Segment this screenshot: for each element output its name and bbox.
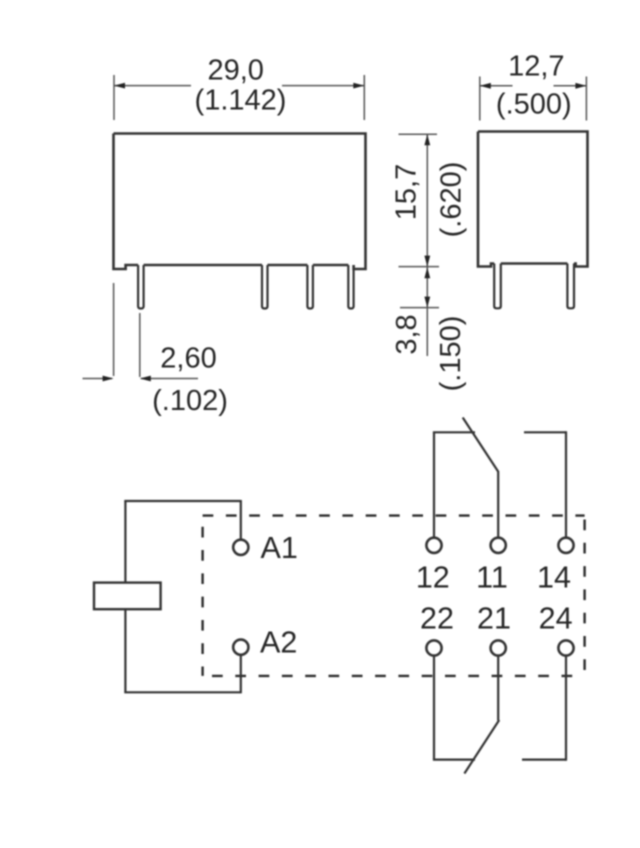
wire 14 horizontal bbox=[524, 431, 566, 433]
dimension 15,7 top tick bbox=[399, 133, 438, 135]
front view pin 3 bbox=[307, 265, 313, 309]
terminal 11 bbox=[491, 538, 506, 553]
dimension 2,60 left arrow line bbox=[83, 378, 113, 380]
svg-text:(.102): (.102) bbox=[152, 385, 228, 417]
dimension 15,7 arrow up bbox=[424, 134, 430, 145]
terminal 24 bbox=[558, 640, 573, 655]
terminal 22 bbox=[426, 640, 441, 655]
terminal 14 bbox=[558, 538, 573, 553]
svg-text:21: 21 bbox=[477, 601, 511, 635]
dimension 12,7 line left segment bbox=[480, 85, 513, 87]
svg-text:11: 11 bbox=[476, 561, 508, 595]
front view pin 1 bbox=[138, 265, 144, 309]
dimension 15,7 line bbox=[426, 134, 428, 266]
dimension 29,0 arrow right bbox=[353, 83, 364, 89]
dimension 12,7 arrow left bbox=[480, 83, 491, 89]
terminal A1 bbox=[233, 540, 248, 555]
dimension 29,0 line left segment bbox=[114, 85, 191, 87]
svg-text:12,7: 12,7 bbox=[508, 51, 564, 83]
switch arm bottom (NC contact) bbox=[464, 720, 499, 774]
side view pin right bbox=[567, 264, 574, 309]
dimension 29,0 extension line left bbox=[113, 75, 115, 120]
dimension 3,8 bottom tick bbox=[400, 307, 439, 309]
wire 24 horizontal bbox=[522, 758, 566, 760]
wire 14 vertical bbox=[565, 431, 567, 538]
coil left vertical wire bbox=[124, 501, 126, 692]
dimension 15,7 arrow down bbox=[424, 256, 430, 267]
side view pin left bbox=[494, 264, 501, 309]
wire 24 vertical bbox=[565, 655, 567, 761]
dimension 2,60 arrow pointing right bbox=[103, 376, 114, 382]
svg-text:A2: A2 bbox=[260, 626, 297, 660]
wire 22 vertical bbox=[433, 655, 435, 760]
dimension 3,8 arrow down bbox=[424, 297, 430, 308]
wire 12 horizontal bbox=[433, 431, 475, 433]
dimension 12,7 extension line right bbox=[585, 77, 587, 121]
switch arm top (NC contact) bbox=[463, 418, 499, 472]
svg-text:(.620): (.620) bbox=[435, 162, 467, 238]
relay body front view bbox=[114, 134, 366, 270]
front view pin 2 bbox=[262, 265, 268, 309]
dimension 12,7 arrow right bbox=[575, 83, 586, 89]
svg-text:22: 22 bbox=[420, 601, 454, 635]
dimension 2,60 extension line left bbox=[113, 283, 115, 376]
wire 22 horizontal bbox=[433, 758, 475, 760]
svg-text:3,8: 3,8 bbox=[391, 314, 423, 354]
wire top horizontal bbox=[124, 500, 241, 502]
wire 21 vertical bbox=[497, 655, 499, 721]
svg-text:15,7: 15,7 bbox=[390, 164, 422, 220]
dimension 12,7 extension line left bbox=[479, 77, 481, 121]
svg-text:24: 24 bbox=[539, 601, 573, 635]
svg-text:A1: A1 bbox=[261, 531, 298, 565]
svg-text:29,0: 29,0 bbox=[207, 55, 263, 87]
dimension 2,60 right arrow line bbox=[141, 378, 198, 380]
dimension 3,8 line with tail bbox=[426, 267, 428, 356]
svg-text:(.150): (.150) bbox=[435, 316, 467, 392]
wire 12 vertical bbox=[433, 432, 435, 538]
dimension 29,0 extension line right bbox=[363, 75, 365, 120]
svg-text:2,60: 2,60 bbox=[160, 343, 216, 375]
terminal 21 bbox=[491, 640, 506, 655]
front view pin 4 bbox=[348, 265, 353, 309]
dimension 29,0 line right segment bbox=[282, 85, 364, 87]
terminal A2 bbox=[233, 640, 248, 655]
dimension 12,7 line right segment bbox=[554, 85, 587, 87]
dimension 15,7 bottom tick bbox=[399, 266, 440, 268]
wire bottom horizontal bbox=[124, 691, 241, 693]
dimension 3,8 arrow up bbox=[424, 267, 430, 278]
svg-text:14: 14 bbox=[537, 561, 571, 595]
wire drop to A1 bbox=[240, 500, 242, 540]
wire rise from A2 bbox=[240, 654, 242, 693]
svg-text:12: 12 bbox=[416, 561, 450, 595]
terminal 12 bbox=[426, 538, 441, 553]
schematic dashed enclosure bbox=[203, 516, 585, 676]
dimension 29,0 arrow left bbox=[114, 83, 125, 89]
wire 11 vertical bbox=[497, 471, 499, 538]
dimension 2,60 arrow pointing left bbox=[140, 376, 151, 382]
coil K1 bbox=[94, 583, 161, 610]
relay body side view bbox=[478, 132, 588, 267]
svg-text:(.500): (.500) bbox=[496, 88, 572, 120]
svg-text:(1.142): (1.142) bbox=[195, 84, 287, 116]
dimension 2,60 extension line right bbox=[139, 313, 141, 377]
